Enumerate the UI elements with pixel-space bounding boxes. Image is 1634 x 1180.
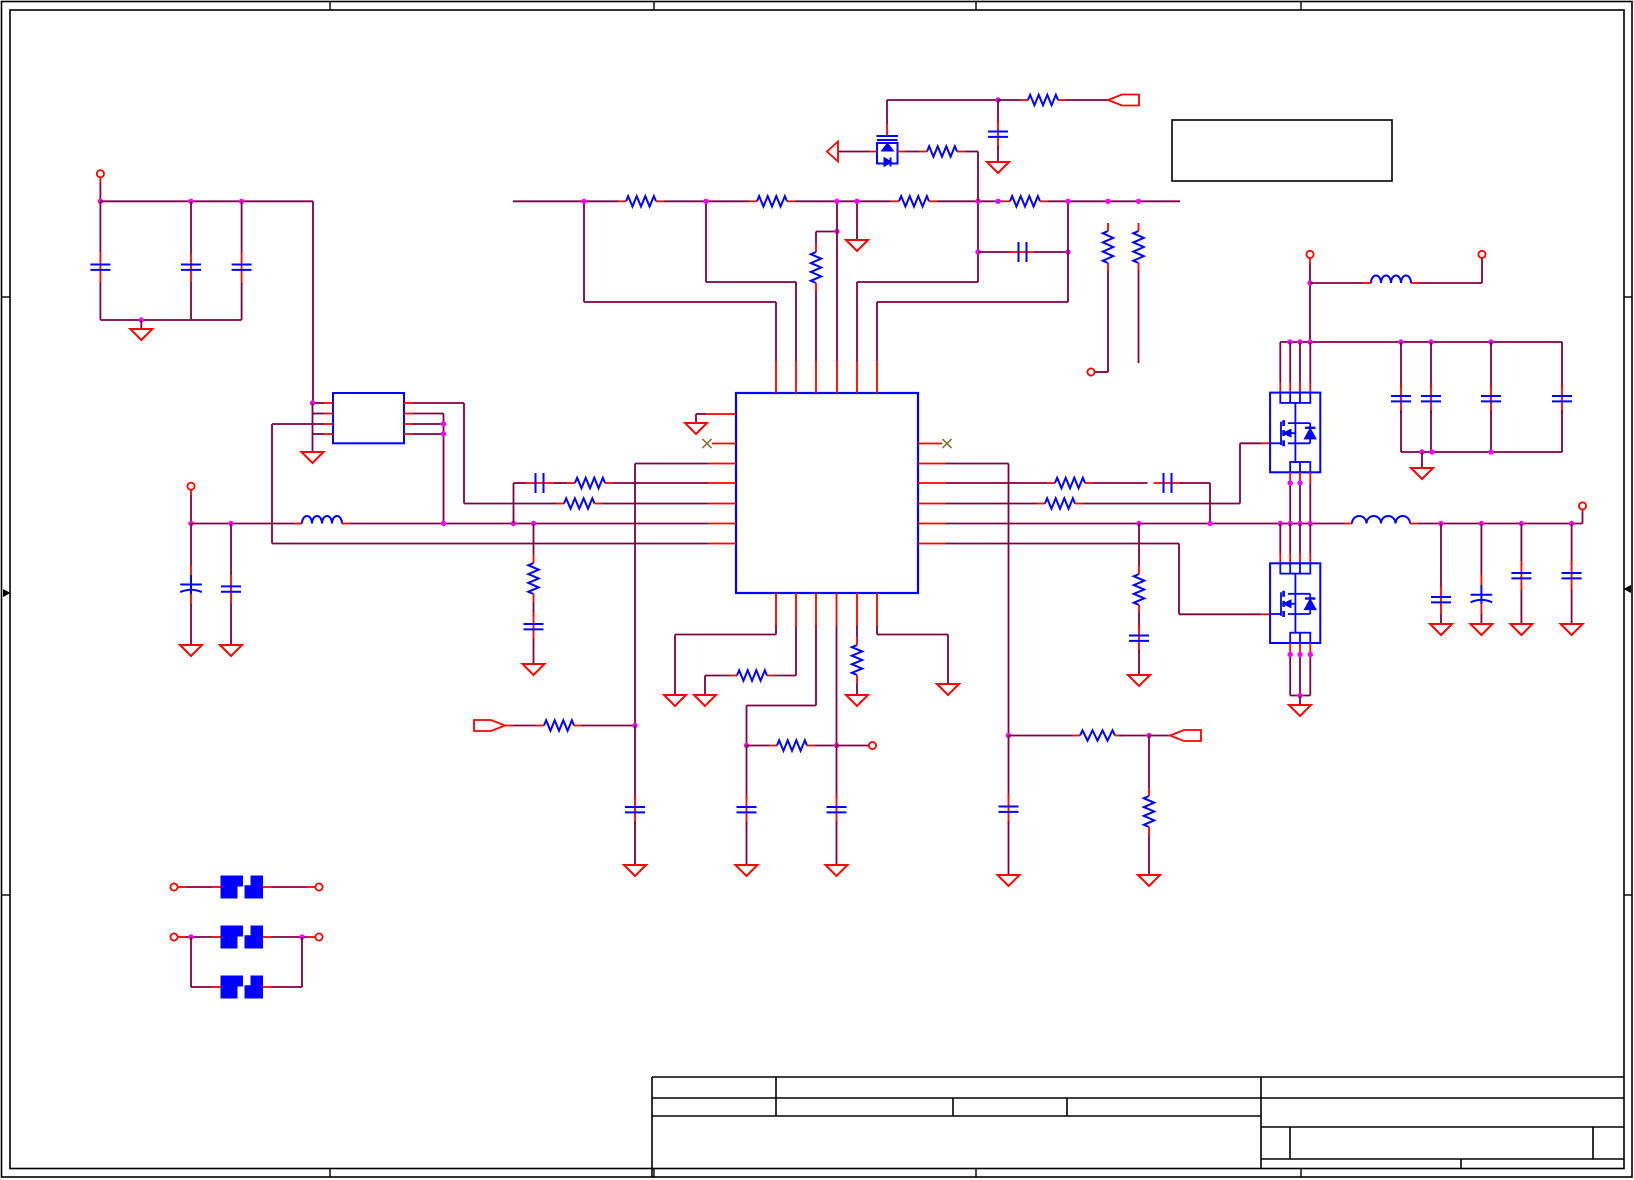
ground G24 <box>1138 875 1160 886</box>
wire F2 to J11 <box>272 936 308 938</box>
Q2 gate lead <box>1261 613 1270 615</box>
wire Q1 bottom x1310 <box>1309 483 1311 524</box>
wire R17 west lead <box>747 745 770 747</box>
wire J4 down <box>1309 264 1311 342</box>
capacitor C8 <box>997 120 999 149</box>
wire C4 top <box>190 524 192 567</box>
pin of J4 <box>1309 258 1311 264</box>
resistor R20 <box>1072 735 1080 737</box>
inductor L1 <box>294 523 302 525</box>
capacitor C21 <box>836 795 838 824</box>
wire C23 bottom <box>1008 821 1010 875</box>
wire pin R463 east <box>946 463 1009 465</box>
capacitor C12 <box>1430 384 1432 413</box>
Q1 top pin lead x1280 <box>1279 383 1281 393</box>
wire pin837 up <box>836 201 838 361</box>
wire R18 bottom <box>856 683 858 695</box>
wire C7 to ground <box>533 639 535 665</box>
resistor R19 <box>536 725 544 727</box>
capacitor C14 <box>1561 384 1563 413</box>
wire C5 bottom <box>230 604 232 646</box>
U1 pin R543 lead <box>918 543 946 545</box>
junction bus i <box>1136 199 1141 204</box>
wire net FB bottom <box>272 543 708 545</box>
wire x706 up <box>705 201 707 282</box>
wire C8 bottom <box>997 146 999 162</box>
terminal J6 <box>1579 502 1586 509</box>
resistor R21 <box>1148 788 1150 796</box>
wire C1 bottom lead <box>99 282 101 320</box>
resistor R3 <box>556 503 564 505</box>
U2 pin6 lead <box>404 423 413 425</box>
ground G3 <box>180 645 202 656</box>
wire pin857 down <box>856 626 858 637</box>
U1 pin R523 lead <box>918 523 946 525</box>
wire Q1 bottom x1300 <box>1299 483 1301 524</box>
wire C21 bottom <box>836 822 838 866</box>
junction bus b <box>703 199 708 204</box>
wire x746 drop <box>746 706 748 746</box>
capacitor C17 <box>1520 561 1522 590</box>
junction sw rail b <box>1288 521 1293 526</box>
ground G4 <box>220 645 242 656</box>
wire rail mid segment <box>350 523 708 525</box>
wire U2 right drop <box>443 414 445 524</box>
Q3 drain2 lead <box>898 151 907 153</box>
junction bus f <box>995 199 1000 204</box>
capacitor C20 <box>746 795 748 824</box>
ground G6 <box>685 423 707 434</box>
wire C9 east <box>1035 251 1069 253</box>
wire R17 east <box>815 745 837 747</box>
wire x1008 vertical <box>1008 464 1010 736</box>
wire bus segment d <box>937 200 1002 202</box>
wire C22 top <box>634 726 636 800</box>
U1 top pin 3 lead <box>815 361 817 393</box>
capacitor C7 <box>533 612 535 641</box>
junction sw rail d <box>1308 521 1313 526</box>
resistor R7 <box>891 200 899 202</box>
Q2 bottom pin lead x1290 <box>1289 643 1291 655</box>
wire to J3 <box>1095 371 1109 373</box>
border left arrow <box>3 589 11 597</box>
wire C12 bottom <box>1430 411 1432 453</box>
U1 top pin 6 lead <box>876 361 878 393</box>
junction out c <box>1519 521 1524 526</box>
wire R9 east <box>1083 503 1240 505</box>
wire pin836 down <box>836 626 838 746</box>
ground G23 <box>998 875 1020 886</box>
wire R3 to U1 <box>603 503 709 505</box>
junction vcc c13 <box>1488 339 1493 344</box>
wire pin796 down <box>795 626 797 676</box>
ground G8 <box>987 162 1009 173</box>
border zone tick marks <box>329 2 331 11</box>
junction bus a <box>581 199 586 204</box>
wire y100 top <box>887 99 998 101</box>
F3 right lead <box>263 986 272 988</box>
wire Q2 gnd stub <box>1299 696 1301 706</box>
junction vcc q1c <box>1307 339 1312 344</box>
wire R16 east gap <box>775 675 796 677</box>
wire R21 bottom <box>1148 835 1150 875</box>
ground G20 <box>846 695 868 706</box>
wire x978 gate drop <box>977 152 979 202</box>
capacitor C1 <box>99 253 101 282</box>
wire gnd drop 675 <box>674 635 676 696</box>
wire Q1 bottom x1290 <box>1289 483 1291 524</box>
junction Q1 sw b <box>1297 480 1302 485</box>
ground G21 <box>937 684 959 695</box>
wire C11 bottom <box>1400 411 1402 453</box>
junction U2 pin6 <box>441 421 446 426</box>
Q2 top pin lead x1280 <box>1279 553 1281 563</box>
junction sw rail a <box>1278 521 1283 526</box>
U1 bottom pin5 lead <box>856 593 858 626</box>
junction VIN1 b <box>188 199 193 204</box>
resistor R18 <box>856 637 858 645</box>
wire y634 right <box>877 634 948 636</box>
ground G11 <box>1430 624 1452 635</box>
F2 right lead <box>263 936 272 938</box>
ground G2 <box>302 452 324 463</box>
terminal J7 <box>869 742 876 749</box>
wire x635 vertical <box>634 464 636 726</box>
wire U2 gnd drop <box>312 403 314 452</box>
U1 bottom pin1 lead <box>775 593 777 626</box>
ground G7 <box>846 240 868 251</box>
Q2 top pin lead x1290 <box>1289 553 1291 563</box>
wire Q2 top x1310 <box>1309 524 1311 554</box>
wire Q3 to R14 <box>906 151 919 153</box>
wire y705 left <box>747 705 817 707</box>
junction x836 <box>834 743 839 748</box>
wire Q3 drain top <box>886 100 888 124</box>
wire C9 west <box>978 251 1011 253</box>
Q2 top pin lead x1310 <box>1309 553 1311 563</box>
junction U2 pin5 <box>441 431 446 436</box>
wire R10 top <box>1138 524 1140 567</box>
junction x1149 <box>1146 733 1151 738</box>
wire C6 west <box>514 482 528 484</box>
ground G17 <box>694 695 716 706</box>
junction vcc q1a <box>1287 339 1292 344</box>
wire C10 east <box>1180 482 1211 484</box>
wire AGND stub <box>696 413 706 415</box>
U1 bottom pin4 lead <box>836 593 838 626</box>
wire y282 left <box>706 281 796 283</box>
wire bus segment e <box>1048 200 1180 202</box>
wire U2 pin1 to junction <box>313 402 325 404</box>
U1 bottom pin3 lead <box>815 593 817 626</box>
wire gate1 up <box>1239 443 1241 503</box>
pin of J2 <box>190 490 192 495</box>
fuse F3 <box>221 976 264 999</box>
junction return a <box>1419 449 1424 454</box>
resistor R6 <box>815 244 817 252</box>
junction bus e <box>975 199 980 204</box>
wire pin857 up <box>856 282 858 361</box>
wire R16 west <box>705 675 729 677</box>
title block <box>652 1076 1624 1078</box>
resistor R15 <box>1020 99 1028 101</box>
wire gnd tap bus <box>856 201 858 240</box>
junction F2 right <box>299 934 304 939</box>
wire y231 jog <box>816 231 837 233</box>
junction rail/J2 <box>188 521 193 526</box>
resistor R16 <box>729 675 737 677</box>
wire R14 to x978 <box>965 151 978 153</box>
wire R543 east <box>946 543 1179 545</box>
junction vcc c11 <box>1398 339 1403 344</box>
ground G1 <box>130 329 152 340</box>
capacitor C16 (polarized) <box>1480 575 1482 586</box>
capacitor C9 <box>1009 251 1037 253</box>
wire R20 to x1149 <box>1119 735 1149 737</box>
capacitor C6 <box>526 482 554 484</box>
net arrow A4 <box>1170 730 1201 741</box>
Q1 bottom pin lead x1290 <box>1289 472 1291 483</box>
junction rail/R10 <box>1136 521 1141 526</box>
wire C6 branch vertical <box>513 483 515 524</box>
Q3 drain lead <box>886 124 888 136</box>
junction VIN1 c <box>239 199 244 204</box>
U1 nc pin left lead <box>712 443 736 445</box>
net arrow A3 <box>474 720 505 731</box>
wire U2 pin3 down <box>271 424 273 544</box>
junction rail/C6 <box>511 521 516 526</box>
wire U2 pin6 east <box>413 423 444 425</box>
Q1 top pin lead x1300 <box>1299 383 1301 393</box>
resistor R8 <box>1047 482 1055 484</box>
wire J10 to F2 <box>186 936 212 938</box>
wire Q2 bottom x1290 <box>1289 655 1291 696</box>
junction x978/y252 <box>975 249 980 254</box>
Q2 bottom pin lead x1310 <box>1309 643 1311 655</box>
stub to ground <box>140 320 142 329</box>
Q1 bottom pin lead x1300 <box>1299 472 1301 483</box>
net arrow A1 <box>827 142 838 162</box>
wire U2 pin8 east <box>413 402 464 404</box>
wire C18 bottom <box>1571 590 1573 624</box>
wire x584 up <box>583 201 585 302</box>
wire Q2 source bar <box>1290 695 1310 697</box>
wire sw rail x1280 down <box>1279 524 1281 554</box>
wire output rail <box>946 523 1345 525</box>
wire R19 to x635 <box>582 725 635 727</box>
wire AGND down <box>695 414 697 423</box>
net arrow A2 <box>1108 95 1139 106</box>
wire C20 top <box>746 746 748 800</box>
wire U2 pin2 <box>313 413 325 415</box>
Q2 top pin lead x1300 <box>1299 553 1301 563</box>
U1 pin L503 lead <box>708 503 736 505</box>
wire R12 down <box>1107 271 1109 372</box>
wire pin796 up <box>795 282 797 361</box>
wire F3 right <box>272 986 303 988</box>
wire Q2 bottom x1310 <box>1309 655 1311 696</box>
wire L2 up <box>1481 258 1483 283</box>
transistor module Q1 <box>1270 393 1320 473</box>
U1 pin L523 lead <box>708 523 736 525</box>
junction x837/y231 <box>834 229 839 234</box>
wire gate2 east <box>1179 613 1261 615</box>
U1 pin R503 lead <box>918 503 946 505</box>
junction x635 <box>632 723 637 728</box>
terminal J1 <box>97 170 104 177</box>
wire U2 pin4 <box>313 433 325 435</box>
wire rail left segment <box>191 523 302 525</box>
U1 top pin 4 lead <box>836 361 838 393</box>
J8 lead <box>178 886 186 888</box>
U1 top pin 1 lead <box>775 361 777 393</box>
junction rail/C4 <box>228 521 233 526</box>
wire R13 down <box>1138 271 1140 363</box>
wire U2 pin5 east <box>413 433 444 435</box>
text frame box <box>1172 120 1392 181</box>
wire pin877 down <box>876 626 878 635</box>
capacitor C11 <box>1400 384 1402 413</box>
U2 pin5 lead <box>404 433 413 435</box>
inductor L2 <box>1363 282 1371 284</box>
border right arrow <box>1624 585 1632 593</box>
wire F1 to J9 <box>272 886 308 888</box>
junction out b <box>1479 521 1484 526</box>
wire C23 top <box>1008 736 1010 799</box>
terminal J5 <box>1478 251 1485 258</box>
wire R5 top <box>533 524 535 556</box>
wire to A4 <box>1149 735 1170 737</box>
resistor R4 <box>567 482 575 484</box>
wire y100 to R15 <box>998 99 1020 101</box>
F3 left lead <box>212 986 221 988</box>
wire x1068 down <box>1067 201 1069 302</box>
resistor R1 <box>618 200 626 202</box>
junction x746 <box>744 743 749 748</box>
wire pin816 down <box>815 626 817 706</box>
wire pin877 up <box>876 302 878 361</box>
wire C3 top lead <box>241 201 243 254</box>
J9 lead <box>307 886 315 888</box>
capacitor C5 <box>230 574 232 603</box>
wire C2 top lead <box>190 201 192 254</box>
ground G9 <box>1411 468 1433 479</box>
wire gate2 down <box>1178 544 1180 615</box>
wire C16 top <box>1480 524 1482 576</box>
junction Q1 sw a <box>1288 480 1293 485</box>
ground G16 <box>664 695 686 706</box>
junction out a <box>1438 521 1443 526</box>
wire C12 top <box>1430 342 1432 388</box>
wire R21 top <box>1148 736 1150 789</box>
F1 right lead <box>263 886 272 888</box>
U1 nc pin right lead <box>918 443 942 445</box>
wire C4 bottom <box>190 604 192 645</box>
wire Q1 top pin x1280 <box>1279 342 1281 383</box>
resistor R13 <box>1138 223 1140 231</box>
ground G5 <box>523 664 545 675</box>
Q3 source lead <box>869 151 877 153</box>
wire bus segment a <box>513 200 618 202</box>
wire U2 pin7 east <box>413 413 444 415</box>
pin of J1 <box>99 177 101 182</box>
wire U2 pin3 west <box>272 423 324 425</box>
ground G10 <box>1289 705 1311 716</box>
wire C21 top <box>836 746 838 800</box>
capacitor C19 <box>1138 624 1140 653</box>
wire U2 pin8 down <box>463 403 465 504</box>
main IC U1 <box>736 393 918 593</box>
wire x1008 to R20 <box>1009 735 1074 737</box>
ground G14 <box>1561 624 1583 635</box>
ground G22 <box>624 865 646 876</box>
junction bus c <box>834 199 839 204</box>
wire y282 right <box>857 281 978 283</box>
wire C19 bottom <box>1138 650 1140 675</box>
wire C14 bottom <box>1561 411 1563 453</box>
wire C6 to R4 <box>554 482 568 484</box>
wire C3 bottom lead <box>241 282 243 320</box>
wire Q1 top pin x1300 <box>1299 342 1301 383</box>
wire R4 to U1 <box>613 482 708 484</box>
wire F3 left <box>191 986 212 988</box>
wire Q2 top x1300 <box>1299 524 1301 554</box>
junction Q2 s b <box>1297 652 1302 657</box>
ground G12 <box>1470 624 1492 635</box>
F1 left lead <box>212 886 221 888</box>
wire C17 top <box>1520 524 1522 566</box>
U1 pin L483 lead <box>708 482 736 484</box>
wire C5 top <box>230 524 232 576</box>
wire Q1 top pin x1310 <box>1309 342 1311 383</box>
wire C8 top <box>997 100 999 124</box>
U1 top pin 2 lead <box>795 361 797 393</box>
wire R10 to C19 <box>1138 613 1140 628</box>
wire C17 bottom <box>1520 590 1522 624</box>
wire gate1 east <box>1240 442 1261 444</box>
U1 bottom pin6 lead <box>876 593 878 626</box>
wire C18 top <box>1571 524 1573 566</box>
junction rail/U2 <box>441 521 446 526</box>
U1 top pin 5 lead <box>856 361 858 393</box>
wire R483 to R8 <box>946 482 1047 484</box>
junction bus d <box>854 199 859 204</box>
junction return b <box>1429 449 1434 454</box>
U2 pin2 lead <box>324 413 333 415</box>
resistor R5 <box>533 555 535 563</box>
wire C1 top lead <box>99 201 101 254</box>
junction VIN1 a <box>98 199 103 204</box>
wire Q3 to arrow <box>838 151 869 153</box>
U2 pin1 lead <box>324 402 333 404</box>
junction bus g <box>1065 199 1070 204</box>
wire C16 bottom <box>1480 614 1482 624</box>
wire J2 down <box>190 495 192 524</box>
resistor R9 <box>1037 503 1045 505</box>
Q1 bottom pin lead x1310 <box>1309 472 1311 483</box>
wire C22 bottom <box>634 822 636 866</box>
wire x978 down <box>977 201 979 282</box>
terminal J4 <box>1306 251 1313 258</box>
U1 bottom pin2 lead <box>795 593 797 626</box>
U2 pin3 lead <box>324 423 333 425</box>
capacitor C18 <box>1571 561 1573 590</box>
wire y302 right <box>877 301 1068 303</box>
U2 pin4 lead <box>324 433 333 435</box>
wire C2 bottom lead <box>190 282 192 320</box>
wire Q2 bottom x1300 <box>1299 655 1301 696</box>
U1 pin R463 lead <box>918 463 946 465</box>
